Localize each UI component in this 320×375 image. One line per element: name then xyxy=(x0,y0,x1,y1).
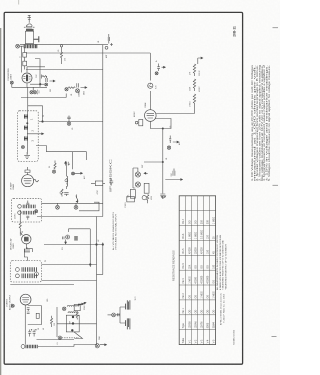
T4 terminal right xyxy=(35,272,39,276)
capacitor C7 to ground xyxy=(160,194,165,199)
terminal E6 xyxy=(65,179,68,182)
wire V2 cathode loop xyxy=(150,119,171,129)
terminal E10 xyxy=(65,88,68,91)
capacitor box C19 xyxy=(23,61,27,66)
wire y339.5 xyxy=(37,339,75,341)
resistor R3 xyxy=(193,64,195,76)
capacitor C10 xyxy=(109,179,113,186)
wire from bus to V2 xyxy=(149,53,151,110)
table footnotes xyxy=(216,234,227,290)
coil form box L1 xyxy=(25,31,33,44)
resistor box R5 xyxy=(144,183,149,193)
node T1a xyxy=(27,123,28,124)
wire osc feed xyxy=(28,106,43,122)
arrow A10 xyxy=(50,80,56,82)
voice coil dot 2 xyxy=(72,322,74,324)
T4 secondary winding xyxy=(22,274,36,279)
T3 trimmer 2 xyxy=(18,211,22,215)
speaker frame box xyxy=(66,315,79,332)
wire y220.5 xyxy=(37,216,103,218)
cone pivot xyxy=(58,336,62,340)
wire vertical x90.25 xyxy=(89,229,91,267)
resistor R2 xyxy=(68,87,75,89)
wire xyxy=(24,66,26,70)
component box Z2 xyxy=(36,313,39,318)
transformer T4 enclosure xyxy=(10,261,41,282)
capacitor C6 xyxy=(169,136,171,144)
wire xyxy=(24,57,26,61)
wire pin stub row xyxy=(30,83,44,85)
arrow A9 xyxy=(65,240,67,244)
terminal E1 xyxy=(105,46,108,49)
rectifier zigzag xyxy=(76,311,78,320)
arrow A6 xyxy=(65,162,69,166)
wire V4 to T4 xyxy=(24,244,32,261)
output transformer T5 primary xyxy=(67,306,78,307)
T5 arrow xyxy=(78,303,83,306)
pilot lamp I2 xyxy=(148,83,153,88)
T1 center lead xyxy=(26,111,28,154)
wire through R12 xyxy=(91,182,105,184)
capacitor C21 xyxy=(38,90,39,95)
T3 primary winding xyxy=(23,205,35,209)
tube V1 12BE6 xyxy=(22,73,32,83)
node J3 xyxy=(39,83,41,85)
page scan edge left xyxy=(0,28,1,375)
T1 slug xyxy=(24,152,30,159)
resistor R9 xyxy=(54,161,56,170)
resistor box R8 xyxy=(127,197,135,202)
T4 trimmer 1 xyxy=(16,268,20,272)
loop antenna L1 winding xyxy=(24,44,37,48)
arrow A8 xyxy=(100,344,107,346)
page edge tick bottom xyxy=(272,335,277,338)
trimmer C1T xyxy=(26,24,32,27)
resistor R15 xyxy=(50,316,52,327)
wire y230.8 xyxy=(69,229,91,232)
wire speaker line xyxy=(57,323,97,325)
plug blade bar 1 xyxy=(125,304,127,310)
wire left bus x27.75 xyxy=(27,87,29,111)
resistor R10 xyxy=(61,189,63,197)
wire vertical x102.75 xyxy=(102,243,104,275)
wire y284.5 xyxy=(10,284,74,286)
arrow A4 xyxy=(173,141,179,143)
switch SW1 xyxy=(112,313,116,317)
V3 grid detail xyxy=(24,178,32,183)
resistor R1 xyxy=(60,47,62,64)
wire antenna down xyxy=(21,47,23,73)
tube V5 50B5 xyxy=(20,294,31,305)
resistor R17 xyxy=(193,94,195,114)
capacitor C20 xyxy=(67,116,70,122)
volume control taper xyxy=(76,195,78,203)
terminal E11 xyxy=(67,122,71,126)
schematic border frame xyxy=(4,12,242,364)
resistor R13 xyxy=(19,222,21,236)
wire vertical x57 xyxy=(56,307,58,337)
wire loop xyxy=(79,202,99,211)
resistor R16 xyxy=(42,75,47,79)
transformer T1 enclosure xyxy=(17,111,38,162)
transformer T3 enclosure xyxy=(12,198,42,222)
capacitor C2 xyxy=(34,36,39,42)
wire y344.5 xyxy=(38,345,97,347)
grid squiggle xyxy=(20,233,23,235)
terminal E4 xyxy=(142,196,146,200)
wire y203.3 xyxy=(42,202,103,204)
misc value labels xyxy=(20,41,182,345)
T3 cap bottom xyxy=(26,216,29,220)
wire pin row y87 xyxy=(12,86,48,88)
wire avc arrow xyxy=(165,179,182,181)
cone link dashed xyxy=(62,337,79,339)
node J5 xyxy=(42,121,44,123)
plug prong 2 xyxy=(127,318,130,329)
pilot lamp I1 xyxy=(76,89,80,93)
tube V4 12AT6 xyxy=(22,235,31,244)
plug blade bar 2 xyxy=(125,320,127,326)
T1 terminal xyxy=(21,146,24,149)
wire V5 cathode down xyxy=(24,305,26,345)
crystal Y1 terminal xyxy=(135,121,138,124)
node J9 xyxy=(102,244,104,246)
wire loop box xyxy=(28,306,42,325)
capacitor C17 xyxy=(77,83,79,87)
T1 winding 3 xyxy=(24,136,28,140)
wire main bus y44.5 xyxy=(20,44,103,46)
speaker field coil L5 xyxy=(26,345,37,348)
node J6 xyxy=(162,161,163,162)
diode plate D1 xyxy=(135,172,140,177)
volume control R7 box xyxy=(130,190,135,199)
arrow A5 xyxy=(144,172,148,174)
V5 grid detail xyxy=(22,298,29,303)
wire avc return xyxy=(21,94,66,98)
wire V2 plate to IF xyxy=(156,113,194,115)
tube V2 12BA6 xyxy=(145,110,157,122)
arrow A2 xyxy=(81,87,87,89)
wire y274.5 xyxy=(97,274,103,276)
T4 primary winding xyxy=(22,267,36,272)
T1 exit arrow xyxy=(27,133,43,135)
attribution text xyxy=(220,293,226,325)
wire y244.5 xyxy=(44,244,103,246)
socket pin S2 xyxy=(74,205,78,209)
tick marks xyxy=(161,196,166,198)
capacitor box C18 xyxy=(23,53,27,58)
tube V3 12BA6 xyxy=(22,175,34,187)
wire corner top xyxy=(36,146,87,170)
capacitor C8 xyxy=(173,169,175,176)
capacitor C11 xyxy=(24,247,30,252)
terminal E8 xyxy=(11,304,14,307)
wire branch y162 xyxy=(144,161,163,163)
terminal E5 xyxy=(52,170,55,173)
node J8 xyxy=(96,244,98,246)
wire vertical x96.5 xyxy=(96,217,98,346)
T4 trimmer 2 xyxy=(16,274,20,278)
wire IF line y121.5 xyxy=(39,121,103,123)
antenna terminal A1 xyxy=(16,44,20,48)
T3 secondary winding xyxy=(23,211,35,215)
V4 grid detail xyxy=(24,237,29,242)
voice coil dot 3 xyxy=(71,329,73,331)
resistor R11 above V3 xyxy=(25,167,30,175)
socket pin E7 xyxy=(66,235,70,239)
box R12 xyxy=(95,181,102,186)
wire vertical x20.25 xyxy=(19,210,21,222)
wire stub xyxy=(27,66,45,68)
arrow B+ xyxy=(198,57,203,64)
capacitor C16 xyxy=(63,237,65,240)
coil L4 on vertical xyxy=(66,162,67,190)
table grid xyxy=(179,196,215,345)
wire y264.5 xyxy=(42,264,97,266)
capacitor C12 stack xyxy=(27,308,30,314)
node J7 xyxy=(72,172,75,175)
T3 trimmer 1 xyxy=(18,205,22,209)
wire avc vertical lower xyxy=(162,162,164,194)
page edge tick middle xyxy=(273,184,279,187)
T3 terminal right xyxy=(35,210,38,213)
speaker terminal xyxy=(21,345,25,349)
electrolytic C15A xyxy=(28,330,31,337)
capacitor C9 xyxy=(64,192,68,196)
wire osc feedback xyxy=(35,59,40,87)
T1 winding 1 xyxy=(24,114,28,118)
V1 grid detail xyxy=(26,75,28,82)
terminal P1 xyxy=(10,81,13,84)
rectifier box Z3 xyxy=(74,305,80,311)
switch contacts xyxy=(116,313,120,316)
voice coil dot 1 xyxy=(72,316,74,318)
output transformer T5 secondary xyxy=(68,312,77,313)
wire branch xyxy=(24,47,26,53)
table cell text xyxy=(183,217,216,344)
gang slab xyxy=(26,29,34,31)
terminal E9 xyxy=(45,83,48,86)
socket pin S3 xyxy=(30,91,33,94)
wire bus y69.5 xyxy=(26,69,103,71)
component box Z1 xyxy=(74,236,78,241)
capacitor C4 xyxy=(46,76,47,82)
tuning gang C1A shaft xyxy=(27,15,31,23)
wire bracket xyxy=(120,307,125,323)
wire arrow right xyxy=(75,172,83,174)
page edge tick top xyxy=(273,26,279,29)
arrow A3 xyxy=(162,66,166,68)
node J2 xyxy=(110,43,113,46)
T3 cap top xyxy=(26,201,29,205)
wire bus y53 xyxy=(26,52,150,54)
plug prong 1 xyxy=(127,300,130,309)
socket pin S4 xyxy=(33,91,36,94)
plus mark 1 xyxy=(31,329,32,330)
wire y280.5 xyxy=(42,280,97,282)
T5 terminal xyxy=(62,307,65,310)
wire avc vertical xyxy=(162,129,164,163)
diode plate D2 xyxy=(135,182,140,187)
I2 filament squiggle xyxy=(149,83,152,87)
arrow A7 xyxy=(81,302,87,304)
node J11 xyxy=(162,128,163,129)
ground lug G2 xyxy=(95,344,99,348)
wire stub xyxy=(32,87,34,90)
crystal Y1 body xyxy=(139,120,143,126)
resistor R6 xyxy=(147,195,149,204)
node J1 xyxy=(60,45,62,47)
wire xyxy=(103,44,108,46)
terminal E2 xyxy=(155,72,158,75)
electrolytic C15B xyxy=(33,330,36,337)
V2 grid detail xyxy=(147,113,154,118)
capacitor C5 plus xyxy=(157,64,160,72)
capacitor C3 xyxy=(108,34,109,44)
plus mark 2 xyxy=(35,329,36,330)
socket pin S1 xyxy=(56,205,60,209)
wire vertical bus x102.8 xyxy=(102,45,104,217)
node J10 xyxy=(89,264,91,266)
terminal E3 xyxy=(167,146,170,149)
speaker cone edge xyxy=(74,332,83,339)
wire to switch xyxy=(108,314,112,316)
grid cap squiggle xyxy=(34,180,39,182)
resistor R4 xyxy=(193,79,195,91)
wire det xyxy=(133,168,138,188)
T1 winding 2 xyxy=(24,126,28,130)
